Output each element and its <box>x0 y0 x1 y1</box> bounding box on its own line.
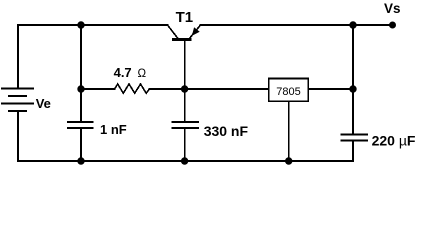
svg-text:220 µF: 220 µF <box>372 133 416 149</box>
svg-text:7805: 7805 <box>276 86 300 98</box>
svg-text:T1: T1 <box>176 9 194 26</box>
svg-text:Vs: Vs <box>384 1 401 16</box>
svg-text:4.7: 4.7 <box>114 65 132 80</box>
svg-text:Ω: Ω <box>138 68 147 80</box>
svg-text:Ve: Ve <box>36 96 51 111</box>
svg-text:330 nF: 330 nF <box>204 123 249 139</box>
svg-text:1 nF: 1 nF <box>100 122 127 137</box>
